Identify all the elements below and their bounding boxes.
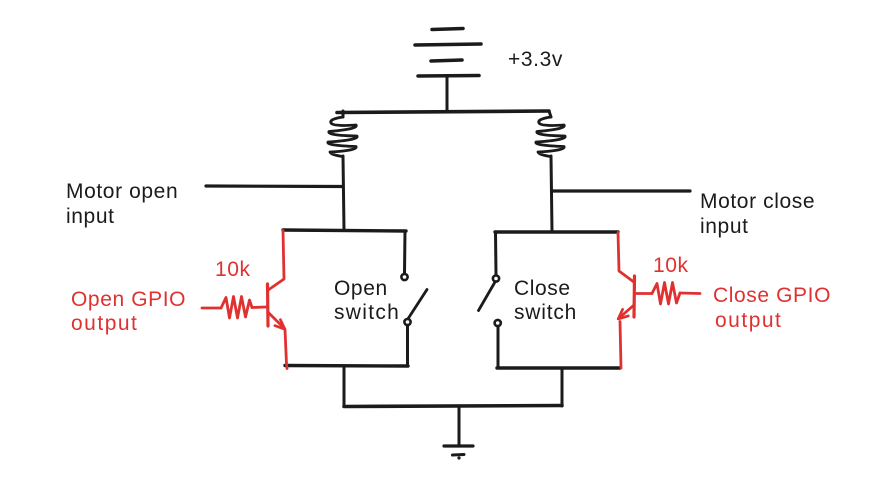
svg-text:switch: switch [334,301,400,324]
svg-text:Close: Close [514,277,571,300]
svg-text:Open GPIO: Open GPIO [71,288,186,311]
svg-text:Open: Open [334,277,388,300]
svg-text:Close GPIO: Close GPIO [713,284,831,307]
svg-text:output: output [715,309,782,332]
svg-text:switch: switch [514,301,577,324]
svg-text:output: output [71,312,138,335]
svg-text:Motor close: Motor close [700,190,815,213]
svg-text:Motor open: Motor open [66,180,178,203]
svg-text:input: input [66,205,115,228]
svg-text:10k: 10k [215,258,251,281]
svg-text:10k: 10k [653,254,689,277]
svg-text:+3.3v: +3.3v [508,48,563,71]
svg-text:input: input [700,215,749,238]
